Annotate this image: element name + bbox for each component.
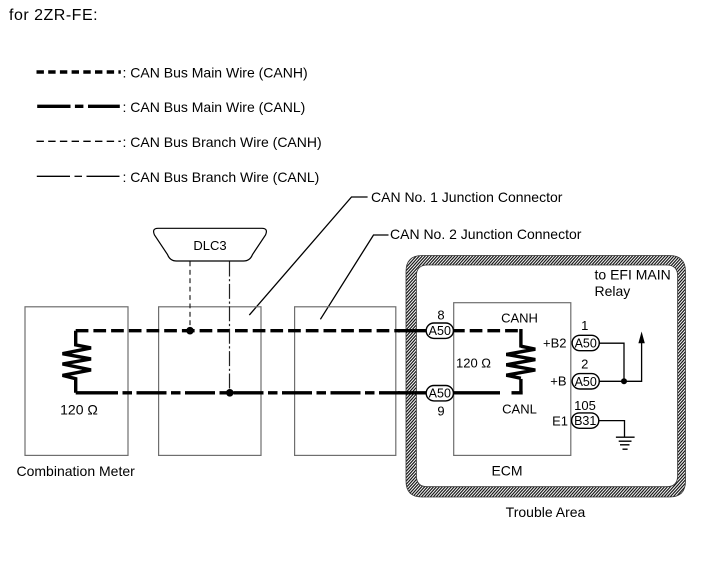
label to EFI MAIN Relay bbox=[595, 267, 671, 300]
connector A50 pin 1 bbox=[572, 335, 599, 350]
label Trouble Area bbox=[506, 504, 586, 520]
trouble area hatched border bbox=[406, 256, 686, 498]
svg-text:A50: A50 bbox=[575, 337, 597, 351]
junction node +B bbox=[621, 378, 627, 384]
wire CAN bus main CANH bbox=[76, 329, 426, 332]
connector A50 pin 2 bbox=[572, 374, 599, 389]
svg-text:2: 2 bbox=[581, 357, 588, 372]
pin 9 label bbox=[437, 404, 444, 419]
resistor 120 ohm ECM bbox=[506, 346, 535, 378]
connector A50 pin 8 bbox=[426, 323, 453, 338]
label +B2 bbox=[543, 335, 567, 350]
wire +B2 to junction bbox=[599, 343, 624, 381]
svg-text:120 Ω: 120 Ω bbox=[60, 402, 98, 418]
label 120 ohm combination meter bbox=[60, 402, 98, 418]
connector B31 pin 105 bbox=[572, 413, 599, 428]
svg-text:A50: A50 bbox=[429, 324, 451, 338]
pin 105 label bbox=[574, 398, 596, 413]
svg-text:E1: E1 bbox=[552, 414, 568, 429]
legend main wire CANH sample line bbox=[37, 70, 121, 73]
svg-text:120 Ω: 120 Ω bbox=[456, 356, 491, 371]
svg-text:A50: A50 bbox=[429, 387, 451, 401]
title text bbox=[9, 7, 98, 24]
svg-text:CAN No. 2 Junction Connector: CAN No. 2 Junction Connector bbox=[390, 226, 582, 242]
pin 2 label bbox=[581, 357, 588, 372]
label CANL ECM bbox=[502, 402, 537, 417]
svg-text:8: 8 bbox=[437, 308, 444, 323]
svg-text:ECM: ECM bbox=[491, 463, 522, 479]
legend main wire CANL label bbox=[123, 99, 306, 115]
svg-text:B31: B31 bbox=[574, 414, 596, 428]
legend branch wire CANL label bbox=[123, 169, 320, 185]
legend branch wire CANH sample line bbox=[37, 140, 121, 142]
legend main wire CANH label bbox=[123, 65, 308, 81]
svg-text:CANH: CANH bbox=[501, 311, 538, 326]
svg-text:CAN No. 1 Junction Connector: CAN No. 1 Junction Connector bbox=[371, 189, 563, 205]
junction node on CANL bbox=[226, 389, 234, 397]
svg-text:to EFI MAIN: to EFI MAIN bbox=[595, 267, 671, 283]
box ECM bbox=[454, 303, 571, 456]
connector DLC3 bbox=[154, 228, 267, 261]
svg-text:Trouble Area: Trouble Area bbox=[506, 504, 586, 520]
label ECM bbox=[491, 463, 522, 479]
label CAN No.1 junction connector bbox=[371, 189, 563, 205]
svg-text:+B: +B bbox=[550, 374, 566, 389]
leader line CAN No.2 junction connector bbox=[320, 235, 388, 319]
connector A50 pin 9 bbox=[426, 386, 453, 401]
label +B bbox=[550, 374, 566, 389]
svg-text:Combination Meter: Combination Meter bbox=[17, 463, 136, 479]
wire CAN bus main CANL bbox=[76, 391, 426, 394]
legend branch wire CANH label bbox=[123, 134, 322, 150]
svg-text:9: 9 bbox=[437, 404, 444, 419]
wire CAN branch CANL from DLC3 bbox=[229, 262, 231, 393]
svg-text:: CAN Bus Main Wire (CANH): : CAN Bus Main Wire (CANH) bbox=[123, 65, 308, 81]
wire CAN branch CANH from DLC3 bbox=[189, 262, 191, 331]
svg-text:: CAN Bus Branch Wire (CANH): : CAN Bus Branch Wire (CANH) bbox=[123, 134, 322, 150]
label 120 ohm ECM bbox=[456, 356, 491, 371]
box CAN No.1 junction connector bbox=[159, 307, 261, 456]
legend branch wire CANL sample line bbox=[37, 175, 120, 177]
wire +B to EFI main relay bbox=[599, 342, 642, 381]
legend main wire CANL sample line bbox=[37, 105, 120, 108]
svg-text:Relay: Relay bbox=[595, 283, 631, 299]
label E1 bbox=[552, 414, 568, 429]
svg-text:DLC3: DLC3 bbox=[193, 238, 226, 253]
svg-text:1: 1 bbox=[581, 318, 588, 333]
wire E1 to ground bbox=[599, 421, 625, 438]
svg-text:: CAN Bus Main Wire (CANL): : CAN Bus Main Wire (CANL) bbox=[123, 99, 306, 115]
wire ECM internal CANH bbox=[452, 329, 521, 348]
label Combination Meter bbox=[17, 463, 136, 479]
junction node on CANH bbox=[186, 327, 194, 335]
ground symbol bbox=[616, 437, 635, 449]
wire ECM internal CANL bbox=[452, 379, 523, 395]
svg-text:+B2: +B2 bbox=[543, 335, 567, 350]
svg-text:for 2ZR-FE:: for 2ZR-FE: bbox=[9, 7, 98, 24]
pin 1 label bbox=[581, 318, 588, 333]
pin 8 label bbox=[437, 308, 444, 323]
label CAN No.2 junction connector bbox=[390, 226, 582, 242]
resistor 120 ohm combination meter bbox=[63, 331, 92, 393]
box CAN No.2 junction connector bbox=[295, 307, 396, 456]
svg-text:A50: A50 bbox=[575, 375, 597, 389]
leader line CAN No.1 junction connector bbox=[249, 197, 367, 315]
arrow to EFI MAIN relay bbox=[638, 332, 644, 344]
label CANH ECM bbox=[501, 311, 538, 326]
svg-text:CANL: CANL bbox=[502, 402, 537, 417]
svg-text:: CAN Bus Branch Wire (CANL): : CAN Bus Branch Wire (CANL) bbox=[123, 169, 320, 185]
box Combination Meter bbox=[25, 307, 128, 456]
svg-text:105: 105 bbox=[574, 398, 596, 413]
